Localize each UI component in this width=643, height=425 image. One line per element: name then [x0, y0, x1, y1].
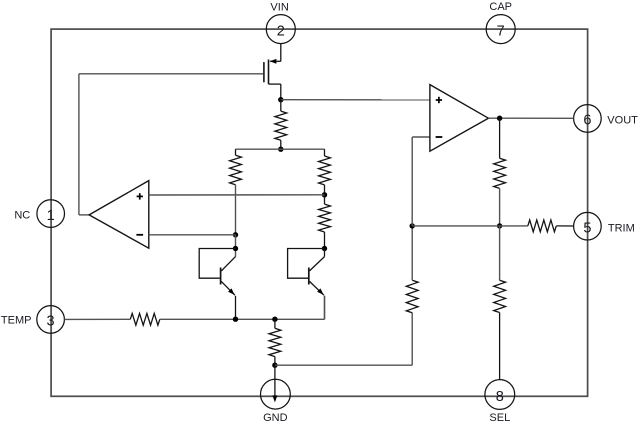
resistor R10	[528, 220, 574, 232]
pin NC (1)	[14, 200, 64, 228]
wire U2 output to VOUT	[488, 117, 573, 119]
wire node C to Q2 collector	[235, 235, 237, 257]
svg-text:5: 5	[583, 221, 591, 237]
resistor R4	[319, 195, 331, 249]
wire node A to op-amp U2 non-inverting input	[281, 99, 430, 101]
resistor R6	[269, 319, 281, 365]
wire node J to U2 inverting input	[412, 137, 430, 226]
svg-text:VIN: VIN	[270, 2, 288, 14]
svg-text:GND: GND	[263, 412, 288, 424]
wire node B rail	[236, 148, 325, 150]
svg-text:SEL: SEL	[489, 412, 510, 424]
svg-text:NC: NC	[14, 210, 30, 222]
node G junction (Q2 emitter on rail)	[233, 317, 238, 322]
op-amp U2	[430, 85, 489, 152]
resistor R5	[130, 313, 160, 325]
resistor R3	[319, 149, 331, 195]
svg-text:6: 6	[583, 113, 591, 129]
node L junction (R9 tap on TRIM rail)	[497, 223, 502, 228]
svg-text:1: 1	[47, 208, 55, 224]
svg-text:8: 8	[496, 389, 504, 405]
wire VIN to transistor drain	[270, 44, 281, 62]
svg-text:3: 3	[47, 314, 55, 330]
transistor Q1 pass FET	[264, 59, 281, 100]
wire GND node to GND pin with arrow	[272, 365, 277, 402]
node C junction (U1 inverting input tap)	[233, 232, 238, 237]
node H junction (R6 top on rail)	[272, 317, 277, 322]
node K junction (VOUT node)	[497, 116, 502, 121]
pin TRIM (5)	[574, 212, 635, 240]
transistor Q3	[288, 249, 325, 320]
wire TRIM rail	[412, 225, 528, 227]
pin VIN (2)	[266, 2, 295, 44]
pin VOUT (6)	[574, 105, 639, 133]
resistor R9	[494, 226, 506, 380]
svg-text:TRIM: TRIM	[608, 223, 635, 235]
resistor R7	[406, 226, 418, 313]
wire bottom emitter rail	[160, 296, 325, 320]
resistor R2	[230, 149, 242, 235]
pin SEL (8)	[485, 380, 515, 424]
resistor R1	[275, 100, 287, 150]
svg-text:2: 2	[277, 23, 285, 39]
svg-text:TEMP: TEMP	[1, 315, 32, 327]
node A junction (FET source)	[278, 97, 283, 102]
wire gate feedback from op-amp U1 output	[79, 74, 263, 215]
node I junction (GND node)	[272, 363, 277, 368]
svg-text:CAP: CAP	[489, 1, 512, 13]
svg-text:7: 7	[497, 23, 505, 39]
node D junction (Q2 base tie)	[233, 246, 238, 251]
op-amp U1	[89, 181, 149, 249]
pin CAP (7)	[486, 1, 515, 43]
wire TEMP to resistor R5	[64, 318, 130, 320]
node B junction (below R1)	[278, 147, 283, 152]
wire U1 inverting input to node C	[149, 234, 236, 236]
pin TEMP (3)	[1, 306, 64, 334]
transistor Q2	[199, 249, 235, 320]
node J junction (U2 inverting net on TRIM rail)	[410, 223, 415, 228]
pin GND (4)	[261, 379, 291, 424]
resistor R8	[494, 118, 506, 226]
IC package outline	[51, 29, 588, 396]
svg-text:VOUT: VOUT	[607, 115, 638, 127]
node F junction (Q3 collector)	[322, 246, 327, 251]
wire GND node to R7 branch	[275, 313, 412, 366]
node E junction (U1 non-inverting input tap)	[322, 192, 327, 197]
wire U1 non-inverting input to node E	[149, 194, 325, 196]
